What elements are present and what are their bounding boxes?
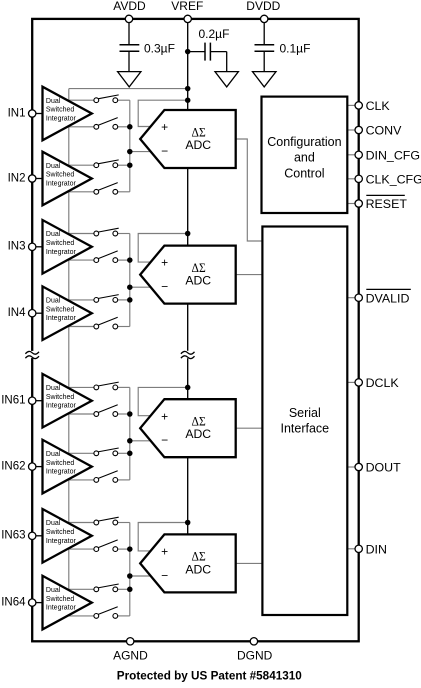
svg-text:Switched: Switched (46, 306, 75, 313)
svg-text:Integrator: Integrator (46, 538, 77, 545)
svg-text:AVDD: AVDD (113, 0, 146, 13)
svg-text:VREF: VREF (171, 0, 203, 13)
svg-text:Dual: Dual (46, 163, 61, 170)
svg-text:ADC: ADC (185, 427, 211, 441)
svg-text:Switched: Switched (46, 240, 75, 247)
svg-text:Integrator: Integrator (46, 116, 77, 123)
svg-text:CONV: CONV (366, 124, 403, 138)
svg-text:Integrator: Integrator (46, 605, 77, 612)
svg-text:−: − (161, 433, 168, 447)
svg-text:Serial: Serial (289, 406, 321, 420)
svg-text:Integrator: Integrator (46, 181, 77, 188)
svg-text:CLK_CFG: CLK_CFG (366, 172, 421, 186)
svg-text:IN63: IN63 (1, 530, 25, 542)
svg-text:IN4: IN4 (8, 307, 27, 319)
svg-text:Integrator: Integrator (46, 469, 77, 476)
svg-text:Dual: Dual (46, 98, 61, 105)
svg-text:Switched: Switched (46, 394, 75, 401)
svg-text:RESET: RESET (366, 197, 408, 211)
svg-text:+: + (161, 120, 168, 134)
svg-text:IN1: IN1 (8, 107, 26, 119)
svg-text:Integrator: Integrator (46, 315, 77, 322)
svg-text:0.2µF: 0.2µF (199, 27, 230, 41)
svg-text:Switched: Switched (46, 172, 75, 179)
svg-text:0.3µF: 0.3µF (144, 41, 175, 55)
svg-text:Interface: Interface (280, 421, 329, 435)
svg-text:ADC: ADC (185, 562, 211, 576)
svg-text:AGND: AGND (113, 649, 148, 663)
svg-text:DOUT: DOUT (366, 461, 402, 475)
svg-text:IN62: IN62 (1, 461, 25, 473)
svg-text:Integrator: Integrator (46, 403, 77, 410)
svg-text:−: − (161, 144, 168, 158)
svg-text:IN64: IN64 (1, 597, 26, 609)
svg-text:CLK: CLK (366, 99, 391, 113)
svg-text:DVALID: DVALID (366, 291, 410, 305)
svg-text:DIN_CFG: DIN_CFG (366, 148, 420, 162)
svg-text:ADC: ADC (185, 138, 211, 152)
svg-text:DCLK: DCLK (366, 376, 400, 390)
svg-text:+: + (161, 409, 168, 423)
svg-text:+: + (161, 545, 168, 559)
svg-text:Switched: Switched (46, 107, 75, 114)
svg-text:Integrator: Integrator (46, 249, 77, 256)
svg-text:DVDD: DVDD (246, 0, 280, 13)
svg-text:Configuration: Configuration (267, 135, 341, 149)
svg-text:Dual: Dual (46, 520, 61, 527)
svg-text:IN61: IN61 (1, 395, 25, 407)
svg-text:Dual: Dual (46, 231, 61, 238)
svg-text:Switched: Switched (46, 596, 75, 603)
svg-text:Switched: Switched (46, 529, 75, 536)
svg-text:IN2: IN2 (8, 172, 26, 184)
svg-text:−: − (161, 280, 168, 294)
svg-text:Dual: Dual (46, 587, 61, 594)
svg-text:0.1µF: 0.1µF (280, 41, 311, 55)
svg-text:−: − (161, 568, 168, 582)
svg-text:Dual: Dual (46, 451, 61, 458)
svg-text:Switched: Switched (46, 460, 75, 467)
svg-text:DIN: DIN (366, 542, 387, 556)
svg-text:Protected by US Patent #584131: Protected by US Patent #5841310 (117, 670, 302, 682)
svg-text:ADC: ADC (185, 274, 211, 288)
svg-text:and: and (294, 151, 315, 165)
svg-text:+: + (161, 256, 168, 270)
svg-text:Dual: Dual (46, 298, 61, 305)
svg-text:Dual: Dual (46, 385, 61, 392)
svg-text:DGND: DGND (237, 649, 273, 663)
svg-text:Control: Control (284, 167, 324, 181)
svg-text:IN3: IN3 (8, 241, 26, 253)
